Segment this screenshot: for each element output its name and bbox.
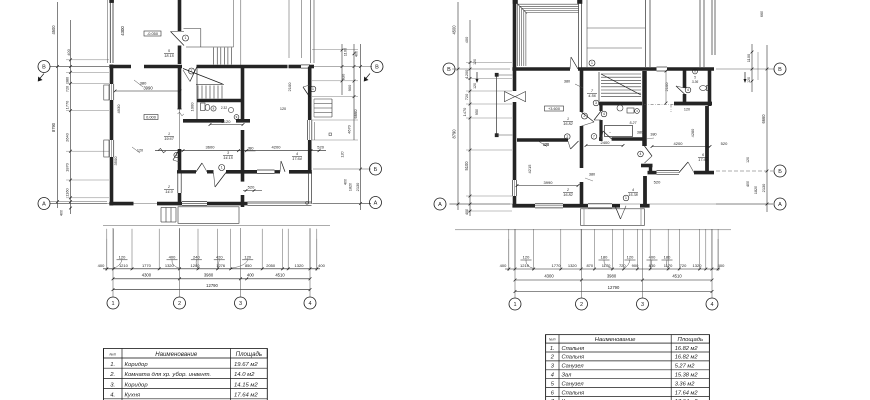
svg-text:4300: 4300 [120, 26, 125, 36]
svg-text:6660: 6660 [761, 114, 766, 124]
svg-text:400: 400 [746, 181, 750, 187]
svg-text:Зал: Зал [562, 373, 573, 379]
svg-text:120: 120 [341, 151, 345, 157]
svg-text:А: А [374, 200, 378, 206]
svg-text:5: 5 [168, 49, 170, 53]
svg-text:400: 400 [355, 51, 359, 57]
svg-text:120: 120 [119, 254, 126, 259]
svg-text:400: 400 [60, 210, 64, 216]
svg-text:В: В [42, 64, 46, 70]
svg-text:14.15: 14.15 [223, 156, 233, 160]
svg-text:1770: 1770 [552, 263, 562, 268]
svg-text:180: 180 [664, 255, 671, 260]
svg-text:120: 120 [543, 143, 549, 147]
svg-text:15.38: 15.38 [628, 193, 638, 197]
svg-text:В: В [375, 64, 379, 70]
svg-text:1100: 1100 [746, 53, 751, 62]
svg-text:№/п: №/п [110, 352, 117, 356]
svg-text:4: 4 [640, 152, 642, 156]
svg-text:1820: 1820 [754, 186, 758, 194]
svg-text:1000: 1000 [190, 102, 195, 112]
svg-text:Спальня: Спальня [562, 346, 585, 352]
svg-text:Санузел: Санузел [562, 381, 585, 387]
svg-text:120: 120 [627, 255, 634, 260]
svg-text:1100: 1100 [343, 47, 348, 56]
svg-text:900: 900 [347, 84, 352, 91]
svg-text:120: 120 [747, 77, 751, 83]
svg-text:5.27: 5.27 [630, 121, 638, 125]
svg-text:Б: Б [778, 169, 782, 175]
svg-text:400: 400 [318, 263, 325, 268]
svg-text:1: 1 [111, 301, 114, 307]
svg-text:4300: 4300 [544, 274, 554, 279]
svg-text:1210: 1210 [520, 263, 530, 268]
svg-text:17.64: 17.64 [292, 157, 302, 161]
svg-text:16.82 м2: 16.82 м2 [675, 355, 699, 361]
svg-text:4: 4 [632, 188, 634, 192]
svg-text:4300: 4300 [142, 272, 152, 277]
svg-text:14.0 м2: 14.0 м2 [234, 372, 255, 378]
svg-text:4500: 4500 [452, 25, 457, 35]
svg-text:1770: 1770 [142, 263, 152, 268]
svg-text:400: 400 [649, 255, 656, 260]
svg-text:380: 380 [66, 77, 70, 83]
svg-text:400: 400 [718, 263, 725, 268]
svg-text:А: А [438, 202, 442, 208]
svg-text:400: 400 [344, 179, 348, 185]
svg-text:2: 2 [584, 114, 586, 118]
svg-text:19.67 м2: 19.67 м2 [234, 362, 258, 368]
svg-text:1170: 1170 [602, 263, 611, 268]
svg-text:1: 1 [168, 132, 170, 136]
svg-text:16.82 м2: 16.82 м2 [675, 346, 699, 352]
svg-text:4200: 4200 [272, 144, 282, 149]
svg-text:1320: 1320 [568, 263, 578, 268]
svg-text:3.36: 3.36 [692, 80, 699, 84]
svg-text:16.82: 16.82 [563, 122, 573, 126]
svg-text:1: 1 [312, 87, 314, 91]
svg-text:2.32: 2.32 [221, 106, 227, 110]
svg-text:Площадь: Площадь [678, 337, 704, 343]
svg-text:1820: 1820 [349, 183, 353, 191]
svg-text:2640: 2640 [65, 132, 70, 141]
svg-text:1770: 1770 [65, 100, 70, 109]
svg-text:Коридор: Коридор [125, 362, 149, 368]
svg-text:А: А [778, 202, 782, 208]
svg-text:4: 4 [308, 301, 311, 307]
svg-text:2130: 2130 [761, 183, 766, 192]
svg-text:4500: 4500 [51, 25, 56, 35]
svg-text:3: 3 [239, 301, 242, 307]
svg-text:2: 2 [566, 135, 568, 139]
svg-text:240: 240 [193, 254, 200, 259]
svg-text:850: 850 [245, 263, 252, 268]
svg-text:17.64: 17.64 [698, 158, 708, 162]
svg-text:14.0: 14.0 [165, 190, 173, 194]
svg-text:17.64 м2: 17.64 м2 [234, 393, 258, 399]
svg-text:120: 120 [244, 254, 251, 259]
svg-text:520: 520 [248, 184, 255, 189]
svg-text:1200: 1200 [464, 69, 469, 78]
svg-text:Кухня: Кухня [125, 393, 142, 399]
svg-text:8790: 8790 [51, 122, 56, 132]
svg-text:4: 4 [603, 112, 605, 116]
svg-text:3.: 3. [110, 382, 115, 388]
svg-text:2100: 2100 [287, 82, 292, 92]
svg-text:18.15: 18.15 [164, 54, 174, 58]
svg-text:400: 400 [465, 209, 469, 215]
svg-text:830: 830 [649, 263, 656, 268]
svg-text:3990: 3990 [544, 180, 554, 185]
svg-text:1.: 1. [550, 346, 555, 352]
svg-text:3: 3 [595, 101, 597, 105]
svg-text:1320: 1320 [693, 263, 703, 268]
svg-text:2: 2 [580, 302, 583, 308]
svg-text:Б: Б [374, 167, 378, 173]
svg-text:3: 3 [641, 302, 644, 308]
svg-text:15.38 м2: 15.38 м2 [675, 373, 699, 379]
svg-text:4: 4 [710, 302, 713, 308]
svg-text:•: • [609, 131, 610, 135]
svg-text:12790: 12790 [206, 283, 218, 288]
svg-text:120: 120 [280, 107, 286, 111]
svg-text:380: 380 [650, 133, 656, 137]
svg-text:Спальня: Спальня [562, 355, 585, 361]
svg-text:3500: 3500 [113, 156, 118, 166]
svg-text:2.: 2. [109, 372, 115, 378]
svg-text:120: 120 [523, 255, 530, 260]
svg-text:+3.600: +3.600 [548, 106, 561, 111]
svg-text:Санузел: Санузел [562, 364, 585, 370]
svg-text:420: 420 [216, 254, 223, 259]
svg-text:1200: 1200 [191, 263, 201, 268]
svg-text:1320: 1320 [295, 263, 305, 268]
svg-text:120: 120 [473, 59, 477, 65]
svg-text:900: 900 [632, 263, 639, 268]
svg-text:2: 2 [167, 185, 170, 189]
svg-text:400: 400 [169, 254, 176, 259]
svg-text:В: В [447, 67, 451, 73]
svg-text:4.56: 4.56 [588, 94, 596, 98]
svg-text:Наименование: Наименование [155, 351, 198, 358]
svg-text:1: 1 [176, 153, 178, 157]
svg-text:120: 120 [684, 108, 690, 112]
svg-text:1: 1 [591, 61, 593, 65]
svg-text:4930: 4930 [116, 104, 121, 114]
svg-text:Комната для хр. убор. инвент.: Комната для хр. убор. инвент. [125, 372, 212, 378]
svg-text:660: 660 [760, 11, 764, 17]
svg-text:400: 400 [66, 48, 71, 55]
svg-text:1870: 1870 [65, 162, 70, 171]
svg-text:180: 180 [601, 255, 608, 260]
svg-text:4: 4 [687, 88, 689, 92]
svg-text:2: 2 [566, 188, 569, 192]
svg-text:14.15 м2: 14.15 м2 [234, 382, 258, 388]
svg-text:400: 400 [98, 263, 105, 268]
svg-text:950: 950 [475, 109, 479, 115]
svg-text:720: 720 [619, 263, 626, 268]
svg-text:400: 400 [500, 263, 507, 268]
svg-text:Наименование: Наименование [595, 337, 636, 343]
svg-text:720: 720 [66, 86, 70, 92]
svg-text:2120: 2120 [222, 119, 232, 124]
svg-text:Площадь: Площадь [236, 351, 262, 358]
svg-text:4280: 4280 [690, 128, 695, 137]
svg-text:12790: 12790 [608, 285, 620, 290]
svg-text:4215: 4215 [527, 164, 532, 174]
svg-text:2130: 2130 [355, 182, 360, 191]
svg-text:4.: 4. [110, 393, 115, 399]
svg-text:5.27 м2: 5.27 м2 [675, 364, 696, 370]
svg-text:1: 1 [221, 166, 223, 170]
svg-text:4: 4 [551, 373, 554, 379]
svg-text:4510: 4510 [672, 274, 682, 279]
svg-text:1470: 1470 [462, 107, 467, 116]
svg-text:4510: 4510 [275, 272, 285, 277]
svg-text:120: 120 [473, 83, 477, 89]
svg-text:720: 720 [680, 263, 687, 268]
svg-text:2100: 2100 [664, 82, 669, 92]
svg-text:1.: 1. [110, 362, 115, 368]
svg-text:1320: 1320 [165, 263, 175, 268]
svg-text:В: В [778, 67, 782, 73]
svg-text:5: 5 [694, 76, 696, 80]
svg-text:400: 400 [464, 36, 469, 43]
svg-text:520: 520 [317, 144, 324, 149]
svg-text:1: 1 [185, 36, 187, 40]
svg-text:1210: 1210 [119, 263, 129, 268]
svg-text:3990: 3990 [143, 86, 153, 91]
svg-text:380: 380 [637, 131, 643, 135]
svg-text:930: 930 [341, 73, 346, 80]
svg-text:3.36 м2: 3.36 м2 [675, 381, 696, 387]
svg-text:2: 2 [178, 301, 181, 307]
svg-text:120: 120 [137, 149, 143, 153]
svg-text:0.000: 0.000 [146, 115, 157, 120]
svg-text:720: 720 [464, 93, 469, 100]
svg-text:3980: 3980 [607, 274, 617, 279]
svg-text:-0.050: -0.050 [147, 31, 159, 36]
svg-text:1: 1 [513, 302, 516, 308]
svg-text:1: 1 [567, 117, 569, 121]
svg-text:3600: 3600 [206, 144, 216, 149]
svg-text:870: 870 [586, 263, 593, 268]
svg-text:7: 7 [191, 69, 193, 73]
svg-text:1160: 1160 [65, 187, 70, 196]
svg-text:19.67: 19.67 [164, 137, 174, 141]
svg-text:520: 520 [721, 141, 728, 146]
svg-text:17.64 м2: 17.64 м2 [675, 390, 699, 396]
svg-text:А: А [42, 201, 46, 207]
svg-text:2050: 2050 [266, 263, 276, 268]
svg-text:520: 520 [654, 180, 661, 185]
svg-text:4670: 4670 [347, 124, 352, 133]
svg-text:Спальня: Спальня [562, 390, 585, 396]
svg-text:4200: 4200 [674, 141, 684, 146]
svg-text:3: 3 [227, 151, 229, 155]
svg-text:№/п: №/п [549, 338, 556, 342]
svg-text:16.82: 16.82 [563, 193, 573, 197]
svg-text:1: 1 [625, 196, 627, 200]
svg-text:5100: 5100 [464, 161, 469, 171]
svg-text:380: 380 [589, 173, 595, 177]
svg-text:4: 4 [296, 152, 298, 156]
svg-text:380: 380 [248, 146, 254, 150]
svg-text:7: 7 [593, 135, 595, 139]
svg-text:6: 6 [702, 153, 704, 157]
svg-text:400: 400 [247, 272, 255, 277]
svg-text:3980: 3980 [204, 272, 214, 277]
svg-text:6660: 6660 [353, 109, 358, 119]
svg-text:2400: 2400 [601, 140, 611, 145]
svg-text:380: 380 [564, 80, 570, 84]
svg-text:Коридор: Коридор [125, 382, 149, 388]
svg-text:120: 120 [746, 157, 750, 163]
svg-text:8790: 8790 [452, 129, 457, 139]
